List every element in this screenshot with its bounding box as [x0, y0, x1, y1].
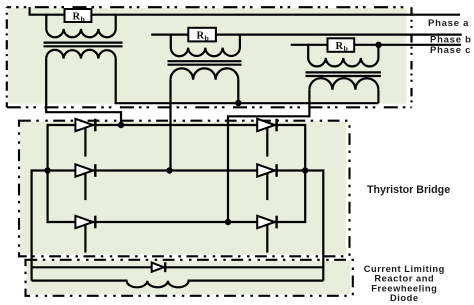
wire phase c line [291, 44, 461, 46]
wire dc negative down [32, 169, 33, 279]
wire T2 secondary left terminal down [169, 80, 171, 171]
node left rail dc output [44, 167, 50, 173]
transformer T2 primary right lead [239, 34, 241, 48]
node bridge row2 ac input [166, 167, 172, 173]
transformer T2 core [168, 60, 242, 62]
thyristor Q2 (row3 right) [257, 216, 276, 253]
transformer T3 primary left lead [307, 44, 309, 59]
transformer T3 secondary winding [309, 78, 378, 90]
wire right dc rail [304, 124, 306, 223]
wire phase b line [151, 33, 462, 35]
svg-text:b: b [205, 34, 209, 43]
node right rail dc output [302, 167, 308, 173]
wire T3 secondary right terminal down [377, 90, 379, 104]
transformer T2 primary winding [171, 48, 240, 57]
svg-text:Thyristor Bridge: Thyristor Bridge [367, 184, 450, 196]
transformer T2 primary left lead [170, 34, 172, 48]
thyristor bridge box (middle dash-dot container) [20, 122, 346, 255]
thyristor Q5 (row3 left) [75, 216, 95, 253]
transformer T3 primary right lead [377, 44, 379, 59]
svg-text:R: R [336, 41, 344, 52]
transformer T1 primary left lead [45, 14, 47, 30]
current limiting reactor box (bottom dash-dot container) [27, 261, 351, 295]
wire T2 secondary right terminal down [237, 80, 239, 104]
svg-text:Phase a: Phase a [428, 18, 469, 29]
svg-text:Phase b: Phase b [430, 35, 472, 46]
diode D1 freewheeling [152, 262, 166, 272]
thyristor Q4 (row1 right) [257, 119, 276, 157]
node T3 primary feed junction [375, 42, 381, 48]
inductor L1 current limiting reactor [127, 278, 189, 287]
svg-text:Phase c: Phase c [430, 45, 471, 56]
svg-text:b: b [344, 44, 348, 53]
transformer T1 core [44, 41, 123, 43]
node bridge row1 ac input [118, 122, 124, 128]
transformer T1 primary right lead [115, 14, 117, 30]
node T1/T2 secondary junction [235, 100, 241, 106]
wire phase a stub [29, 7, 31, 15]
svg-text:R: R [73, 11, 81, 22]
wire bridge row 2 [32, 169, 324, 171]
thyristor Q3 (row2 left) [75, 164, 95, 200]
svg-text:R: R [197, 31, 205, 42]
resistor Rb (T2) [188, 28, 216, 43]
wire left dc rail [46, 124, 48, 223]
wire bridge row 3 [48, 221, 306, 223]
resistor Rb (T1) [65, 9, 92, 23]
wire bridge row 1 [48, 124, 306, 126]
transformer T3 primary winding [308, 58, 378, 66]
snubber network box (top dash-dot container) [8, 8, 407, 104]
wire T1 secondary right terminal down [115, 59, 117, 104]
transformer T3 core [306, 71, 381, 73]
svg-text:Freewheeling: Freewheeling [371, 283, 437, 293]
transformer T2 secondary winding [171, 68, 239, 79]
wire reactor bottom [32, 280, 324, 282]
svg-text:Reactor and: Reactor and [374, 274, 434, 284]
wire T3 secondary left terminal down [228, 90, 309, 222]
wire dc positive down [322, 169, 324, 280]
thyristor Q6 (row2 right) [257, 164, 276, 200]
transformer T1 secondary winding [46, 50, 116, 59]
wire T1 secondary left terminal down [46, 59, 121, 125]
svg-text:Diode: Diode [390, 293, 419, 303]
transformer T1 primary winding [46, 29, 115, 37]
thyristor Q1 (row1 left) [75, 119, 95, 157]
wire secondary bus [115, 102, 379, 104]
svg-text:Current Limiting: Current Limiting [364, 264, 445, 274]
resistor Rb (T3) [328, 38, 355, 53]
wire freewheeling top [32, 266, 324, 268]
node bridge row3 ac input [225, 219, 231, 225]
wire phase a line [29, 14, 460, 16]
svg-text:b: b [81, 14, 85, 23]
